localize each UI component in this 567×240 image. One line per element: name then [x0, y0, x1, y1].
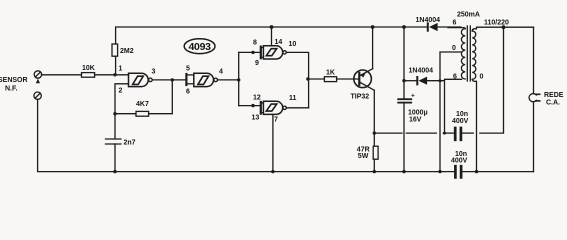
plug REDE CA [529, 94, 536, 102]
svg-text:10K: 10K [82, 65, 95, 72]
transformer T1 secondary winding [461, 29, 465, 79]
wire secondary bottom [445, 79, 462, 133]
svg-text:1N4004: 1N4004 [416, 17, 441, 24]
svg-text:110/220: 110/220 [484, 20, 509, 27]
svg-text:16V: 16V [409, 117, 422, 124]
op-amp U1c gate body [260, 47, 262, 59]
resistor R5 47R [373, 146, 378, 159]
svg-text:1K: 1K [326, 70, 335, 77]
capacitor C2 1000u [398, 98, 411, 100]
wire pin2 [115, 84, 129, 138]
wire sensor to bus [38, 99, 455, 171]
capacitor C1 2n7 [106, 138, 122, 140]
svg-text:14: 14 [275, 39, 283, 46]
svg-text:REDE: REDE [544, 92, 564, 99]
svg-text:10: 10 [289, 41, 297, 48]
svg-text:1N4004: 1N4004 [409, 68, 434, 75]
svg-text:0: 0 [480, 74, 484, 81]
op-amp U1d gate body [260, 102, 262, 114]
wire gate4 output [286, 107, 308, 109]
sensor terminal top [34, 71, 41, 78]
wire top rail right of diode D1 [438, 26, 461, 28]
svg-text:7: 7 [274, 117, 278, 124]
svg-text:12: 12 [253, 95, 261, 102]
svg-text:6: 6 [453, 74, 457, 81]
svg-text:1000µ: 1000µ [408, 110, 428, 117]
IC label ellipse 4093 [184, 39, 215, 54]
wire DC rail [403, 27, 405, 98]
wire collector down [373, 90, 375, 146]
svg-text:400V: 400V [452, 118, 469, 125]
resistor R3 4K7 [115, 113, 136, 115]
svg-text:C.A.: C.A. [546, 100, 560, 107]
svg-text:400V: 400V [451, 158, 468, 165]
wire emitter up [372, 27, 374, 69]
wire center tap [440, 52, 462, 172]
svg-text:SENSOR: SENSOR [0, 77, 28, 84]
svg-text:4093: 4093 [189, 41, 212, 53]
wire pin7 [272, 114, 274, 171]
svg-text:5W: 5W [358, 153, 369, 160]
wire primary bottom [472, 79, 476, 171]
wire gate2 output [218, 79, 239, 81]
svg-text:1: 1 [119, 66, 123, 73]
svg-text:5: 5 [186, 66, 190, 73]
wire gate3 output [286, 52, 308, 107]
svg-text:6: 6 [453, 20, 457, 27]
diode D1 1N4004 [427, 23, 429, 30]
svg-text:N.F.: N.F. [5, 86, 18, 93]
capacitor C3 10n upper [454, 128, 457, 140]
wire pin14 [271, 27, 273, 46]
wire gate1 output [152, 79, 186, 81]
sensor terminal bottom [34, 92, 41, 99]
resistor R1 2M2 [112, 44, 118, 56]
wire fanout vertical [238, 52, 240, 105]
svg-text:11: 11 [289, 95, 297, 102]
transistor Q1 TIP32 [354, 70, 372, 88]
svg-text:13: 13 [252, 115, 260, 122]
op-amp U1a gate body [129, 73, 149, 86]
resistor R2 10K [82, 73, 95, 78]
svg-text:2: 2 [119, 88, 123, 95]
svg-text:9: 9 [255, 60, 259, 67]
svg-text:TIP32: TIP32 [351, 94, 370, 101]
svg-text:0: 0 [452, 45, 456, 52]
wire bus right [462, 171, 533, 173]
wire mains drop [533, 27, 535, 94]
svg-text:250mA: 250mA [457, 12, 480, 19]
diode D2 1N4004 [404, 80, 417, 82]
resistor R4 1K [309, 78, 325, 80]
svg-text:4: 4 [219, 69, 223, 76]
capacitor C4 10n lower [454, 166, 457, 177]
svg-text:3: 3 [152, 69, 156, 76]
wire primary top [472, 27, 533, 31]
svg-text:2M2: 2M2 [120, 48, 134, 55]
wire collector line with hops [374, 132, 402, 134]
svg-text:6: 6 [186, 89, 190, 96]
wire top rail [116, 27, 427, 44]
svg-text:10n: 10n [456, 111, 468, 118]
transformer T1 primary winding [472, 31, 476, 79]
transformer core [466, 26, 468, 81]
svg-text:2n7: 2n7 [124, 140, 136, 147]
svg-text:8: 8 [253, 40, 257, 47]
svg-text:4K7: 4K7 [136, 101, 149, 108]
op-amp U1b gate body [185, 74, 187, 85]
sensor arrow [36, 79, 40, 84]
svg-text:+: + [411, 93, 415, 100]
